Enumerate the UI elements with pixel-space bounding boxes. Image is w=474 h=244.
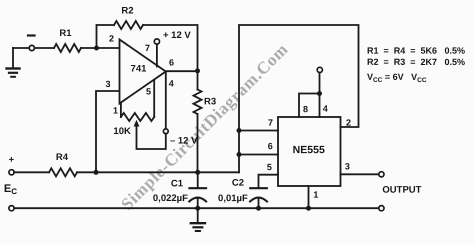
svg-text:3: 3 — [105, 79, 110, 89]
wire -12V to pot wiper — [137, 125, 166, 150]
svg-text:1: 1 — [313, 190, 318, 200]
OUTPUT lower terminal — [379, 206, 384, 211]
capacitor C2 — [250, 188, 267, 208]
pin label 7 — [145, 43, 150, 53]
pin label 8 (555) — [303, 104, 308, 114]
wire terminal to R4 — [14, 171, 49, 173]
wire pin 5 (555) — [259, 175, 279, 188]
svg-text:EC: EC — [4, 183, 17, 196]
svg-text:5: 5 — [146, 87, 151, 97]
wire pin 3 output (555) — [341, 173, 379, 175]
junction pin3/R4 — [94, 170, 99, 175]
watermark text — [117, 40, 291, 214]
svg-text:VCC = 6V VCC: VCC = 6V VCC — [367, 72, 427, 84]
junction output node — [195, 68, 200, 73]
svg-text:2: 2 — [346, 118, 351, 128]
svg-text:0,022µF: 0,022µF — [153, 193, 188, 204]
OUTPUT upper terminal — [379, 172, 384, 177]
svg-text:OUTPUT: OUTPUT — [382, 185, 421, 196]
minus polarity label — [28, 34, 35, 36]
pin label 1 (555) — [313, 190, 318, 200]
pin label 6 (555) — [268, 141, 273, 151]
pin label 4 (555) — [323, 104, 328, 114]
resistor R2 — [114, 21, 143, 29]
wire R1 to op-amp pin 2 — [81, 47, 120, 49]
wire junction up to R2 — [97, 25, 115, 48]
C2 label — [232, 178, 244, 189]
potentiometer 10K — [121, 80, 154, 121]
pin label 4 — [169, 79, 174, 89]
plus input label — [9, 155, 15, 166]
capacitor C1 — [189, 172, 206, 208]
svg-text:R2 = R3 = 2K7 0.5%: R2 = R3 = 2K7 0.5% — [367, 57, 465, 67]
wire pin 7 (555) — [239, 130, 278, 132]
svg-text:R2: R2 — [121, 6, 133, 17]
wire pin 3 — [96, 91, 120, 172]
pin label 3 (555) — [345, 161, 350, 171]
svg-text:– 12 V: – 12 V — [170, 136, 198, 147]
pot wiper arrow head — [134, 120, 140, 127]
svg-text:6: 6 — [169, 58, 174, 68]
wire pin 6 (555) — [239, 154, 278, 156]
svg-text:5: 5 — [267, 162, 272, 172]
junction pin1/ground rail — [306, 206, 311, 211]
NE555 label — [293, 144, 325, 156]
svg-text:2: 2 — [109, 34, 114, 44]
pin label 7 (555) — [268, 118, 273, 128]
pin label 5 — [146, 87, 151, 97]
junction R3/C1/rail — [195, 170, 200, 175]
note line R1 R4 values — [367, 46, 465, 56]
OUTPUT label — [382, 185, 421, 196]
R3 label — [204, 96, 216, 107]
svg-text:3: 3 — [345, 161, 350, 171]
svg-text:+: + — [9, 155, 15, 166]
junction pin 6 on loop — [237, 152, 242, 157]
svg-text:C1: C1 — [171, 178, 184, 189]
svg-text:7: 7 — [268, 118, 273, 128]
svg-text:+ 12 V: + 12 V — [163, 30, 191, 41]
svg-text:R1 = R4 = 5K6 0.5%: R1 = R4 = 5K6 0.5% — [367, 46, 465, 56]
svg-text:6: 6 — [268, 141, 273, 151]
Vcc terminal — [317, 67, 322, 72]
svg-text:4: 4 — [323, 104, 328, 114]
junction Vcc tie — [317, 91, 322, 96]
wire junction to Vcc terminal — [319, 73, 321, 94]
741 label — [131, 64, 148, 75]
pin label 2 — [109, 34, 114, 44]
-12V supply terminal — [163, 129, 168, 134]
+12V supply terminal — [154, 39, 159, 44]
ground (bottom, under C1) — [191, 208, 205, 231]
junction node A (R1/R2/pin2) — [94, 46, 99, 51]
svg-text:R1: R1 — [59, 28, 72, 39]
wire pins 8 and 4 to Vcc — [299, 94, 320, 118]
IC U2 NE555 — [278, 117, 341, 186]
junction C2/ground rail — [256, 206, 261, 211]
minus input terminal — [29, 45, 34, 50]
C2 value label — [218, 193, 248, 204]
svg-text:0,01µF: 0,01µF — [218, 193, 248, 204]
R1 label — [59, 28, 72, 39]
wire ground rail (bottom) — [14, 207, 379, 209]
Ec label — [4, 183, 17, 196]
resistor R1 — [54, 44, 81, 52]
svg-text:NE555: NE555 — [293, 144, 325, 156]
svg-text:10K: 10K — [113, 126, 131, 137]
wire op-amp output to node — [166, 70, 198, 72]
R4 label — [56, 152, 69, 163]
note line R2 R3 values — [367, 57, 465, 67]
wire control rail — [77, 171, 239, 173]
note line Vcc value — [367, 72, 427, 84]
Ec plus terminal — [9, 170, 14, 175]
wire ground to minus terminal — [13, 47, 29, 49]
C1 value label — [153, 193, 188, 204]
resistor R3 — [194, 71, 202, 172]
pin label 6 — [169, 58, 174, 68]
+12V label — [163, 30, 191, 41]
svg-text:7: 7 — [145, 43, 150, 53]
R2 label — [121, 6, 133, 17]
C1 label — [171, 178, 184, 189]
svg-text:C2: C2 — [232, 178, 244, 189]
wire pin 1 (555) — [308, 186, 310, 208]
wire R2 to output node — [143, 25, 198, 71]
pin label 2 (555) — [346, 118, 351, 128]
svg-text:1: 1 — [113, 106, 118, 116]
wire pin 4 down from apex — [165, 72, 167, 129]
pin label 5 (555) — [267, 162, 272, 172]
op-amp U1 741 — [120, 40, 166, 104]
wire terminal to R1 — [34, 47, 54, 49]
-12V label — [170, 136, 198, 147]
10K label — [113, 126, 131, 137]
Ec lower terminal — [9, 206, 14, 211]
svg-text:741: 741 — [131, 64, 148, 75]
svg-text:R3: R3 — [204, 96, 216, 107]
wire pin 7 to +12V — [156, 44, 158, 66]
resistor R4 — [49, 168, 77, 176]
junction pin 7 on loop — [237, 128, 242, 133]
svg-text:8: 8 — [303, 104, 308, 114]
svg-text:R4: R4 — [56, 152, 69, 163]
wire trigger loop (rail to pin 2) — [239, 25, 359, 172]
junction C1/ground rail — [195, 206, 200, 211]
svg-text:4: 4 — [169, 79, 174, 89]
ground (input, top-left) — [7, 48, 20, 77]
pin label 3 — [105, 79, 110, 89]
pin label 1 — [113, 106, 118, 116]
